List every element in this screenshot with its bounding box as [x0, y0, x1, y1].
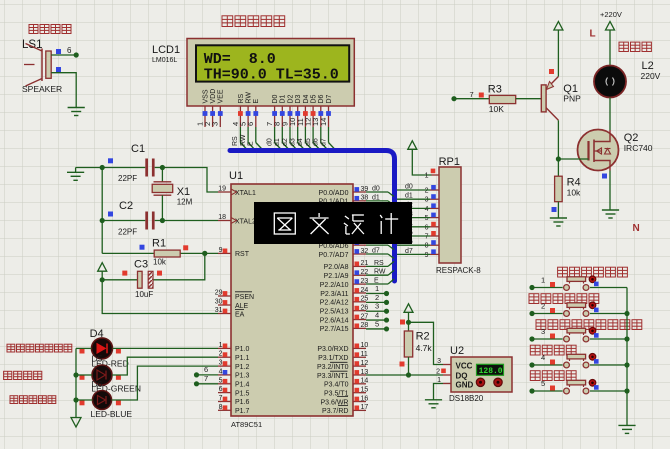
- power arrow above C3: [98, 263, 107, 280]
- LCD pin 10 D3: [288, 94, 302, 127]
- svg-text:7: 7: [470, 90, 474, 99]
- svg-text:RS: RS: [238, 93, 245, 103]
- svg-text:9: 9: [425, 252, 429, 259]
- wire RW chip to bus: [366, 269, 394, 276]
- svg-text:D2: D2: [287, 94, 294, 103]
- wire net 3 from P2.5: [366, 302, 387, 312]
- RP1 pin 2: [425, 185, 439, 195]
- svg-text:128.0: 128.0: [479, 367, 503, 376]
- wire d6 bus to RP1: [397, 239, 430, 246]
- resistor R1 10k: [152, 238, 180, 267]
- svg-text:U1: U1: [229, 170, 243, 182]
- svg-text:d0: d0: [405, 184, 413, 191]
- node button rail: [624, 388, 629, 393]
- svg-text:d7: d7: [405, 248, 413, 255]
- svg-text:C1: C1: [131, 143, 145, 155]
- svg-text:LCD1: LCD1: [152, 44, 180, 56]
- svg-text:P3.3/INT1: P3.3/INT1: [317, 373, 349, 380]
- wire d7 bus to RP1: [397, 248, 430, 255]
- U1 pin 34: [353, 230, 368, 237]
- svg-text:3: 3: [375, 302, 379, 311]
- LCD pin 4 RS: [231, 93, 245, 127]
- RP1 pin 8: [425, 240, 439, 250]
- svg-text:28: 28: [361, 322, 369, 329]
- wire LCD E to bus: [248, 127, 264, 151]
- U1 pin 31: [215, 307, 231, 314]
- svg-text:2: 2: [375, 293, 379, 302]
- blue square R1: [140, 245, 145, 250]
- wire left vertical rail: [101, 168, 103, 254]
- svg-text:4: 4: [219, 368, 223, 375]
- svg-text:11: 11: [361, 351, 368, 358]
- red square net7: [479, 93, 484, 98]
- resistor R2 4.7k: [404, 322, 432, 375]
- wire d2 chip to bus: [366, 203, 394, 214]
- svg-text:2: 2: [425, 188, 429, 195]
- wire button rail: [626, 288, 628, 426]
- node C2-vert: [100, 218, 105, 223]
- svg-text:220V: 220V: [641, 71, 661, 81]
- svg-text:DQ: DQ: [456, 372, 468, 381]
- svg-text:SPEAKER: SPEAKER: [22, 84, 62, 94]
- svg-text:22PF: 22PF: [118, 174, 137, 183]
- U1 pin 26: [353, 304, 368, 311]
- svg-text:E: E: [248, 141, 255, 146]
- svg-text:D0: D0: [272, 94, 279, 103]
- node LED rail 2: [73, 372, 78, 377]
- svg-text:TH=90.0 TL=35.0: TH=90.0 TL=35.0: [204, 66, 339, 83]
- svg-text:P2.2/A10: P2.2/A10: [320, 282, 349, 289]
- U1 pin 2: [218, 351, 231, 358]
- wire d4 chip to bus: [366, 221, 394, 232]
- wire LCD RS to bus: [232, 127, 248, 151]
- node R2-DQ: [406, 372, 411, 377]
- wire R1 row to RST: [102, 252, 218, 254]
- resistor pack RP1 RESPACK-8: [436, 156, 481, 275]
- node button rail: [624, 311, 629, 316]
- svg-text:RESPACK-8: RESPACK-8: [436, 266, 481, 275]
- svg-text:30: 30: [215, 299, 223, 306]
- svg-text:25: 25: [361, 296, 369, 303]
- svg-text:3: 3: [211, 122, 220, 126]
- svg-text:18: 18: [218, 214, 226, 221]
- LCD pin 1 VSS: [195, 89, 209, 127]
- U1 pin 35: [353, 221, 368, 228]
- RP1 pin 3: [425, 194, 439, 204]
- blue square C1: [108, 158, 113, 163]
- U1 pin 33: [353, 239, 368, 246]
- U1 pin 15: [353, 386, 368, 393]
- svg-text:29: 29: [215, 290, 223, 297]
- ground Q2: [602, 210, 619, 218]
- button SW4: [532, 353, 627, 368]
- svg-text:P2.3/A11: P2.3/A11: [320, 291, 348, 298]
- svg-text:XTAL1: XTAL1: [235, 190, 256, 197]
- red square Q1: [549, 69, 554, 74]
- node RST junction: [202, 251, 207, 256]
- wire R4 to ground: [557, 202, 559, 218]
- svg-text:6: 6: [219, 386, 223, 393]
- svg-text:P2.4/A12: P2.4/A12: [320, 300, 349, 307]
- node button 4 left: [529, 362, 534, 367]
- LCD pin 5 RW: [239, 92, 253, 127]
- ground arrow LED rail: [71, 418, 81, 428]
- svg-text:P1.1: P1.1: [235, 355, 250, 362]
- svg-text:d4: d4: [297, 138, 304, 146]
- transistor Q2 IRC740: [578, 130, 653, 171]
- svg-text:D6: D6: [92, 379, 103, 389]
- red square R2 bottom: [400, 362, 405, 367]
- svg-text:d6: d6: [313, 138, 320, 146]
- svg-text:P3.2/INT0: P3.2/INT0: [317, 364, 349, 371]
- svg-text:1: 1: [425, 173, 429, 180]
- wire net 2 from P2.4: [366, 293, 387, 303]
- U1 pin 9: [218, 247, 231, 254]
- U1 pin 5: [218, 377, 231, 384]
- speaker LS1: [22, 39, 62, 94]
- wire LCD d5 to bus: [305, 127, 321, 151]
- node net6b: [194, 372, 199, 377]
- svg-text:P3.0/RXD: P3.0/RXD: [317, 346, 348, 353]
- wire C2 row: [102, 220, 218, 222]
- LCD pin 14 D7: [319, 94, 333, 127]
- svg-text:10k: 10k: [153, 258, 167, 267]
- svg-text:DS18B20: DS18B20: [449, 394, 484, 403]
- red squares LED3: [80, 400, 85, 405]
- svg-text:D5: D5: [92, 353, 103, 363]
- RP1 pin 4: [425, 203, 439, 213]
- node Q1-R4-Q2: [556, 156, 561, 161]
- wire speaker to ground: [51, 73, 76, 108]
- U1 pin 24: [353, 287, 368, 294]
- label 正常加热: [4, 371, 42, 379]
- node R2 top: [406, 320, 411, 325]
- svg-text:LM016L: LM016L: [152, 57, 177, 64]
- label 停止按钮: [530, 371, 576, 381]
- svg-text:10K: 10K: [489, 104, 504, 114]
- U1 pin 25: [353, 296, 368, 303]
- svg-text:2: 2: [219, 351, 223, 358]
- node LED rail 3: [73, 397, 78, 402]
- svg-text:d2: d2: [282, 138, 289, 146]
- wire E chip to bus: [366, 278, 394, 285]
- wire net 7 from P1.4: [197, 374, 219, 384]
- wire net 6 from speaker: [51, 46, 76, 55]
- blue square R4: [552, 207, 557, 212]
- wire R2top to U2 VCC: [409, 322, 444, 364]
- label 加热器: [619, 42, 651, 51]
- svg-text:12M: 12M: [177, 198, 193, 207]
- svg-text:3: 3: [541, 327, 545, 336]
- svg-text:GND: GND: [456, 380, 474, 389]
- sensor U2 DS18B20: [449, 345, 512, 403]
- power arrow R2: [404, 304, 413, 323]
- capacitor C1 22PF: [118, 143, 155, 183]
- label 高低温调节切换按钮: [536, 320, 642, 330]
- svg-text:9: 9: [219, 247, 223, 254]
- watermark 图文设计: [254, 202, 412, 244]
- wire LED rail: [75, 348, 77, 417]
- wire RST junction down to C3 row: [153, 253, 205, 279]
- svg-text:R2: R2: [416, 331, 430, 343]
- node C2-X1: [160, 218, 165, 223]
- svg-text:C2: C2: [119, 200, 133, 212]
- svg-text:14: 14: [361, 378, 369, 385]
- svg-text:D5: D5: [311, 94, 318, 103]
- label 温度显示器: [222, 16, 285, 27]
- transistor Q1 PNP: [541, 77, 581, 121]
- svg-text:1: 1: [375, 284, 379, 293]
- wire net 6 from P1.3: [197, 365, 219, 375]
- ground R4: [550, 218, 567, 226]
- svg-text:VDD: VDD: [210, 89, 217, 104]
- wire d5 bus to RP1: [397, 230, 430, 237]
- wire C1 row: [76, 168, 218, 193]
- node net 3: [384, 309, 389, 314]
- red squares LED2: [80, 375, 85, 380]
- capacitor C3 10uF: [134, 259, 153, 300]
- U1 pin 19: [218, 186, 231, 193]
- blue square spk pin1: [56, 49, 61, 54]
- ground U2: [425, 400, 442, 408]
- svg-text:+220V: +220V: [600, 10, 622, 19]
- ground speaker: [68, 108, 85, 116]
- svg-text:C3: C3: [134, 259, 148, 271]
- LCD pin 8 D1: [273, 94, 287, 127]
- svg-text:8: 8: [219, 404, 223, 411]
- svg-text:6: 6: [67, 46, 72, 55]
- svg-text:P3.1/TXD: P3.1/TXD: [318, 355, 348, 362]
- svg-text:7: 7: [219, 395, 223, 402]
- U1 pin 27: [353, 313, 368, 320]
- LCD1 LM016L display: [152, 39, 354, 107]
- svg-text:VEE: VEE: [218, 89, 225, 103]
- node net 4: [384, 317, 389, 322]
- U1 pin 7: [218, 395, 231, 402]
- svg-text:E: E: [253, 99, 260, 104]
- wire net 1 from P2.3: [366, 284, 387, 294]
- svg-text:P0.0/AD0: P0.0/AD0: [319, 190, 349, 197]
- svg-text:P3.7/RD: P3.7/RD: [322, 408, 348, 415]
- wire d0 chip to bus: [366, 186, 394, 197]
- svg-text:5: 5: [375, 319, 379, 328]
- svg-text:D3: D3: [295, 94, 302, 103]
- wire DQ net P3.3 to U2: [366, 374, 443, 376]
- wire d6 chip to bus: [366, 239, 394, 250]
- label 低温调节按钮: [529, 294, 599, 304]
- svg-text:27: 27: [361, 313, 369, 320]
- wire d0 bus to RP1: [397, 184, 430, 191]
- wire LCD d7 to bus: [320, 127, 336, 151]
- node net 2: [384, 300, 389, 305]
- wire LED3 row: [76, 366, 218, 400]
- RP1 pin 6: [425, 222, 439, 232]
- svg-text:XTAL2: XTAL2: [235, 218, 256, 225]
- svg-text:LED-BLUE: LED-BLUE: [91, 409, 133, 419]
- resistor R4 10k: [555, 176, 581, 202]
- svg-text:10: 10: [361, 342, 369, 349]
- red square R2 top: [400, 320, 405, 325]
- svg-text:15: 15: [361, 386, 369, 393]
- U1 pin 28: [353, 322, 368, 329]
- svg-text:3: 3: [437, 358, 441, 365]
- svg-text:22PF: 22PF: [118, 228, 137, 237]
- wire d7 chip to bus: [366, 247, 394, 258]
- LED D6 LED-BLUE: [91, 391, 133, 420]
- U1 pin 12: [353, 360, 368, 367]
- U1 pin 16: [353, 395, 368, 402]
- RP1 pin 9: [425, 249, 439, 259]
- svg-text:d1: d1: [405, 193, 413, 200]
- svg-text:P0.7/AD7: P0.7/AD7: [319, 252, 349, 259]
- svg-text:R3: R3: [488, 84, 502, 96]
- svg-text:d0: d0: [372, 186, 380, 193]
- LCD pin 2 VDD: [203, 89, 217, 127]
- node C1-vert: [100, 165, 105, 170]
- svg-text:RS: RS: [374, 260, 384, 267]
- red squares LED1: [80, 349, 85, 354]
- svg-text:7: 7: [204, 374, 208, 383]
- power arrow RP1: [408, 141, 432, 175]
- svg-text:RST: RST: [235, 251, 250, 258]
- svg-text:3: 3: [219, 360, 223, 367]
- label 高温调节按钮: [558, 267, 628, 277]
- node button rail: [624, 362, 629, 367]
- svg-text:P2.1/A9: P2.1/A9: [324, 273, 349, 280]
- svg-text:PSEN: PSEN: [235, 294, 254, 301]
- svg-text:PNP: PNP: [563, 94, 581, 104]
- svg-text:6: 6: [425, 224, 429, 231]
- U2 pin 1: [437, 377, 451, 384]
- svg-text:5: 5: [425, 215, 429, 222]
- bus wire (blue): [230, 151, 395, 282]
- svg-text:P2.7/A15: P2.7/A15: [320, 326, 349, 333]
- blue square Q2: [602, 174, 607, 179]
- svg-text:17: 17: [361, 404, 369, 411]
- svg-text:RW: RW: [246, 92, 253, 104]
- wire RS chip to bus: [366, 260, 394, 267]
- U1 pin 30: [215, 299, 231, 306]
- node net7 left: [451, 96, 456, 101]
- blue square spk pin2: [56, 67, 61, 72]
- U1 pin 37: [353, 204, 368, 211]
- RP1 pin 1: [425, 169, 439, 180]
- svg-text:1: 1: [541, 276, 545, 285]
- wire U2 GND to ground: [434, 384, 444, 400]
- wire d2 bus to RP1: [397, 202, 430, 209]
- U1 pin 13: [353, 369, 368, 376]
- red square C3 left: [122, 271, 127, 276]
- svg-text:RP1: RP1: [439, 156, 460, 168]
- U1 pin 29: [215, 290, 231, 297]
- LCD pin 3 VEE: [211, 89, 225, 127]
- U1 pin 39: [353, 186, 368, 193]
- button SW1: [532, 276, 627, 291]
- node net 1: [384, 291, 389, 296]
- wire net 5 from P2.7: [366, 319, 387, 329]
- svg-text:L: L: [590, 29, 596, 40]
- wire C3 junction to EA: [102, 280, 218, 314]
- U1 pin 21: [353, 260, 368, 267]
- wire LCD d6 to bus: [313, 127, 329, 151]
- svg-text:10k: 10k: [567, 188, 581, 198]
- svg-text:14: 14: [319, 118, 328, 126]
- blue square C2: [108, 212, 113, 217]
- node button rail: [624, 336, 629, 341]
- node net 5: [384, 326, 389, 331]
- svg-text:4: 4: [541, 353, 545, 362]
- svg-text:X1: X1: [177, 186, 190, 198]
- wire d3 chip to bus: [366, 212, 394, 223]
- svg-text:P2.6/A14: P2.6/A14: [320, 317, 349, 324]
- wire Q1 collector down: [557, 120, 559, 176]
- wire to Q2 gate: [558, 158, 578, 160]
- LCD pin 13 D6: [311, 94, 325, 127]
- U1 pin 17: [353, 404, 368, 411]
- svg-text:24: 24: [361, 287, 369, 294]
- LCD pin 9 D2: [280, 94, 294, 127]
- svg-text:IRC740: IRC740: [624, 143, 653, 153]
- svg-text:P1.0: P1.0: [235, 346, 250, 353]
- svg-text:U2: U2: [450, 345, 464, 357]
- LED D5 LED-GREEN: [91, 365, 141, 394]
- U1 pin 14: [353, 378, 368, 385]
- node net7b: [194, 381, 199, 386]
- svg-text:5: 5: [219, 377, 223, 384]
- svg-text:4.7k: 4.7k: [416, 343, 433, 353]
- svg-text:P3.4/T0: P3.4/T0: [324, 382, 349, 389]
- node button 1 left: [529, 285, 534, 290]
- red square R1: [183, 245, 188, 250]
- U1 left pin names: [231, 189, 256, 415]
- U1 pin 38: [353, 195, 368, 202]
- U1 pin 18: [218, 214, 231, 221]
- wire LCD d4 to bus: [297, 127, 313, 151]
- button SW2: [532, 302, 627, 317]
- wire d5 chip to bus: [366, 230, 394, 241]
- svg-text:VSS: VSS: [202, 89, 209, 103]
- ground buttons: [618, 425, 635, 433]
- svg-text:4: 4: [425, 206, 429, 213]
- svg-text:26: 26: [361, 304, 369, 311]
- svg-text:10uF: 10uF: [135, 290, 153, 299]
- svg-text:3: 3: [425, 197, 429, 204]
- wire net7 to R3: [454, 90, 489, 99]
- power arrow Q1 emitter: [554, 22, 563, 77]
- wire LCD d0 to bus: [266, 127, 282, 151]
- label 高温报警指示灯: [7, 344, 72, 352]
- U1 pin 4: [218, 368, 231, 375]
- LCD pin 12 D5: [304, 94, 318, 127]
- svg-text:D4: D4: [303, 94, 310, 103]
- svg-text:19: 19: [218, 186, 226, 193]
- wire LED2 row: [76, 357, 218, 375]
- svg-text:RW: RW: [240, 134, 247, 146]
- label 报警喇叭: [29, 25, 71, 34]
- svg-text:N: N: [633, 223, 640, 234]
- svg-text:ALE: ALE: [235, 303, 249, 310]
- svg-text:2: 2: [436, 369, 440, 376]
- svg-text:5: 5: [541, 379, 545, 388]
- svg-text:D7: D7: [326, 94, 333, 103]
- label 开始加热: [530, 345, 576, 355]
- LCD pin 11 D4: [296, 94, 310, 127]
- svg-text:EA: EA: [235, 311, 245, 318]
- svg-text:7: 7: [425, 234, 429, 241]
- node C1-X1: [160, 165, 165, 170]
- svg-text:2: 2: [541, 302, 545, 311]
- svg-text:d1: d1: [372, 194, 380, 201]
